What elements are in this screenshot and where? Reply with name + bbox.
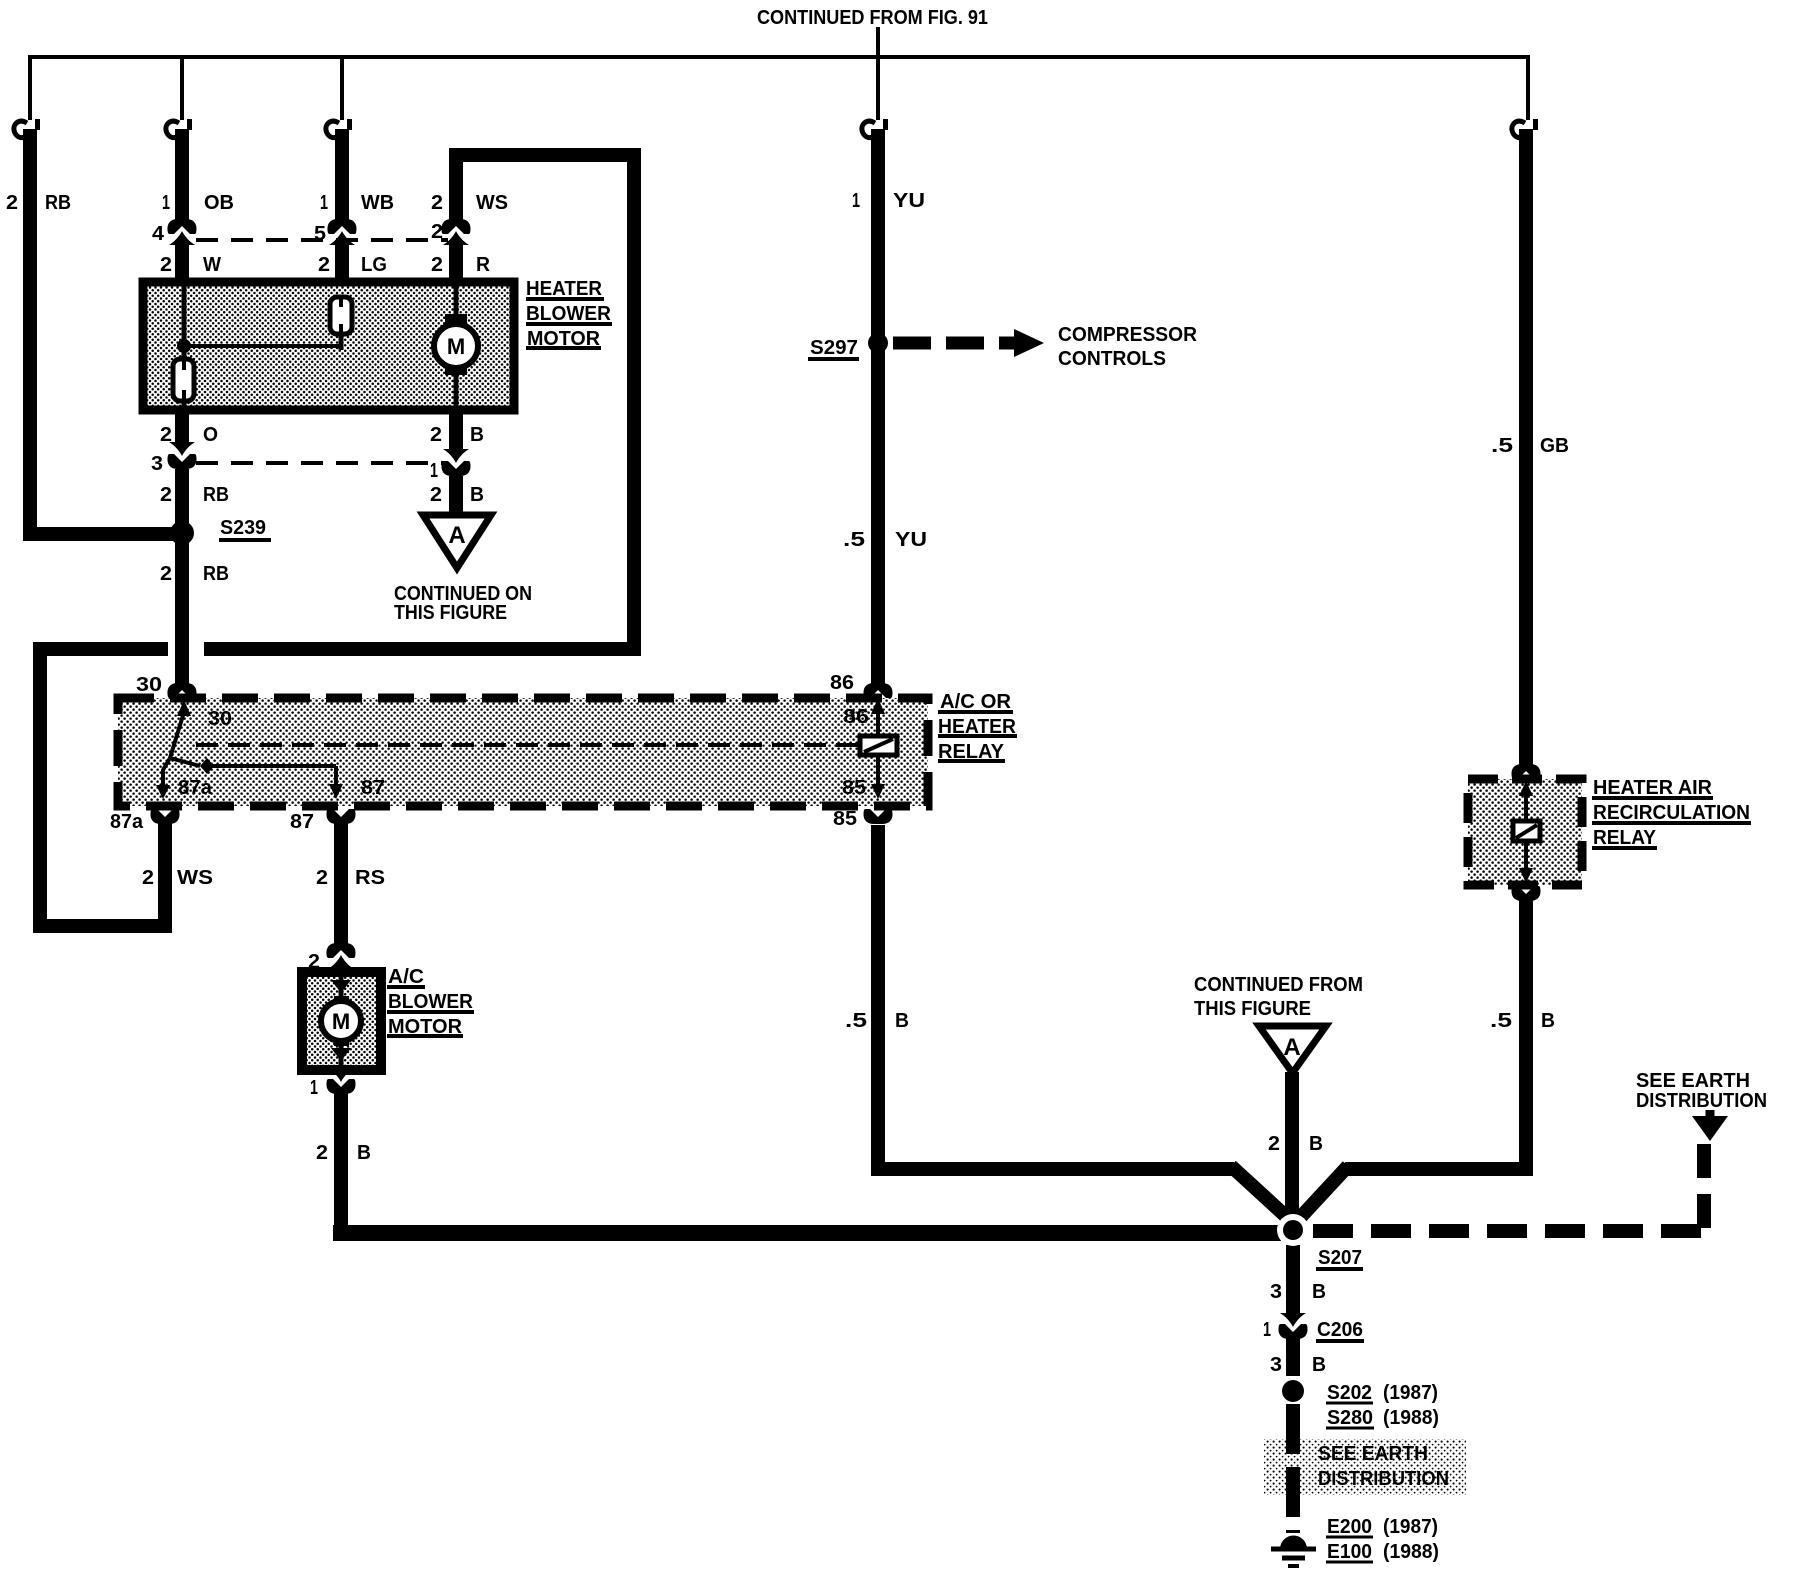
svg-text:86: 86 — [843, 706, 869, 728]
svg-text:2: 2 — [6, 192, 18, 214]
svg-text:YU: YU — [893, 190, 925, 212]
svg-text:M: M — [332, 1009, 350, 1034]
svg-text:OB: OB — [204, 192, 234, 214]
svg-text:RELAY: RELAY — [1593, 827, 1657, 849]
svg-text:(1988): (1988) — [1383, 1541, 1439, 1563]
svg-text:4: 4 — [152, 223, 165, 245]
svg-text:WS: WS — [177, 867, 213, 889]
svg-text:CONTROLS: CONTROLS — [1058, 348, 1166, 370]
svg-text:1: 1 — [430, 460, 438, 482]
svg-text:2: 2 — [1268, 1133, 1280, 1155]
svg-text:1: 1 — [162, 192, 170, 214]
svg-text:RECIRCULATION: RECIRCULATION — [1593, 802, 1750, 824]
svg-text:2: 2 — [160, 254, 172, 276]
svg-text:1: 1 — [852, 190, 860, 212]
svg-text:2: 2 — [316, 867, 328, 889]
svg-text:CONTINUED FROM: CONTINUED FROM — [1194, 974, 1363, 996]
svg-text:S207: S207 — [1318, 1247, 1362, 1269]
svg-text:2: 2 — [142, 867, 154, 889]
svg-text:BLOWER: BLOWER — [526, 303, 612, 325]
svg-text:(1988): (1988) — [1383, 1407, 1439, 1429]
svg-text:B: B — [895, 1010, 909, 1032]
svg-text:86: 86 — [830, 672, 854, 694]
svg-text:2: 2 — [431, 221, 443, 243]
svg-text:B: B — [1309, 1133, 1323, 1155]
svg-text:YU: YU — [895, 529, 927, 551]
svg-text:.5: .5 — [843, 529, 865, 551]
svg-text:30: 30 — [208, 708, 232, 730]
svg-text:LG: LG — [361, 254, 387, 276]
svg-text:S280: S280 — [1327, 1407, 1373, 1429]
svg-text:2: 2 — [160, 424, 172, 446]
svg-text:2: 2 — [160, 484, 172, 506]
svg-text:WB: WB — [361, 192, 394, 214]
svg-text:A: A — [448, 522, 465, 549]
svg-text:B: B — [470, 484, 484, 506]
svg-text:RB: RB — [45, 192, 71, 214]
svg-text:HEATER: HEATER — [526, 278, 603, 300]
svg-text:A/C OR: A/C OR — [940, 691, 1012, 713]
svg-text:DISTRIBUTION: DISTRIBUTION — [1636, 1090, 1767, 1112]
svg-text:WS: WS — [476, 192, 508, 214]
svg-text:2: 2 — [308, 951, 320, 973]
svg-text:R: R — [476, 254, 491, 276]
svg-text:.5: .5 — [845, 1010, 867, 1032]
svg-text:5: 5 — [314, 223, 326, 245]
svg-text:3: 3 — [1270, 1281, 1282, 1303]
svg-text:E200: E200 — [1327, 1516, 1372, 1538]
svg-text:C206: C206 — [1317, 1319, 1363, 1341]
svg-text:1: 1 — [310, 1077, 318, 1099]
svg-text:2: 2 — [430, 484, 442, 506]
svg-text:W: W — [203, 254, 221, 276]
svg-text:2: 2 — [430, 424, 442, 446]
svg-text:2: 2 — [431, 254, 443, 276]
svg-text:CONTINUED FROM FIG. 91: CONTINUED FROM FIG. 91 — [757, 7, 988, 29]
svg-text:30: 30 — [136, 674, 162, 696]
svg-text:2: 2 — [431, 192, 443, 214]
svg-text:87: 87 — [361, 777, 385, 799]
svg-text:RB: RB — [203, 484, 229, 506]
svg-text:GB: GB — [1540, 435, 1569, 457]
svg-text:B: B — [1312, 1281, 1326, 1303]
svg-text:(1987): (1987) — [1383, 1516, 1438, 1538]
svg-text:THIS FIGURE: THIS FIGURE — [394, 602, 507, 624]
svg-text:B: B — [357, 1142, 371, 1164]
svg-text:85: 85 — [842, 777, 866, 799]
svg-text:3: 3 — [1270, 1354, 1282, 1376]
svg-text:3: 3 — [151, 453, 163, 475]
svg-text:A/C: A/C — [388, 966, 424, 988]
svg-text:2: 2 — [316, 1142, 328, 1164]
svg-text:BLOWER: BLOWER — [388, 991, 474, 1013]
svg-text:O: O — [203, 424, 218, 446]
svg-text:M: M — [447, 334, 465, 359]
svg-text:87a: 87a — [110, 811, 144, 833]
svg-text:B: B — [470, 424, 484, 446]
svg-text:87a: 87a — [178, 777, 213, 799]
svg-text:RB: RB — [203, 563, 229, 585]
svg-text:1: 1 — [1263, 1319, 1271, 1341]
svg-text:S239: S239 — [220, 517, 266, 539]
svg-text:COMPRESSOR: COMPRESSOR — [1058, 324, 1198, 346]
svg-text:SEE EARTH: SEE EARTH — [1318, 1443, 1428, 1465]
svg-text:.5: .5 — [1490, 1010, 1512, 1032]
svg-text:2: 2 — [318, 254, 330, 276]
svg-text:SEE EARTH: SEE EARTH — [1636, 1070, 1750, 1092]
svg-text:2: 2 — [160, 563, 172, 585]
svg-text:THIS FIGURE: THIS FIGURE — [1194, 998, 1311, 1020]
svg-text:85: 85 — [833, 808, 857, 830]
svg-text:DISTRIBUTION: DISTRIBUTION — [1318, 1468, 1449, 1490]
svg-text:B: B — [1541, 1010, 1555, 1032]
svg-text:E100: E100 — [1327, 1541, 1372, 1563]
svg-text:S202: S202 — [1327, 1382, 1372, 1404]
svg-text:87: 87 — [290, 811, 314, 833]
svg-text:1: 1 — [320, 192, 328, 214]
svg-text:B: B — [1312, 1354, 1326, 1376]
svg-text:HEATER AIR: HEATER AIR — [1593, 777, 1713, 799]
svg-text:.5: .5 — [1491, 435, 1513, 457]
svg-text:A: A — [1283, 1034, 1300, 1061]
svg-text:RS: RS — [355, 867, 385, 889]
svg-text:S297: S297 — [810, 337, 858, 359]
svg-text:(1987): (1987) — [1383, 1382, 1438, 1404]
